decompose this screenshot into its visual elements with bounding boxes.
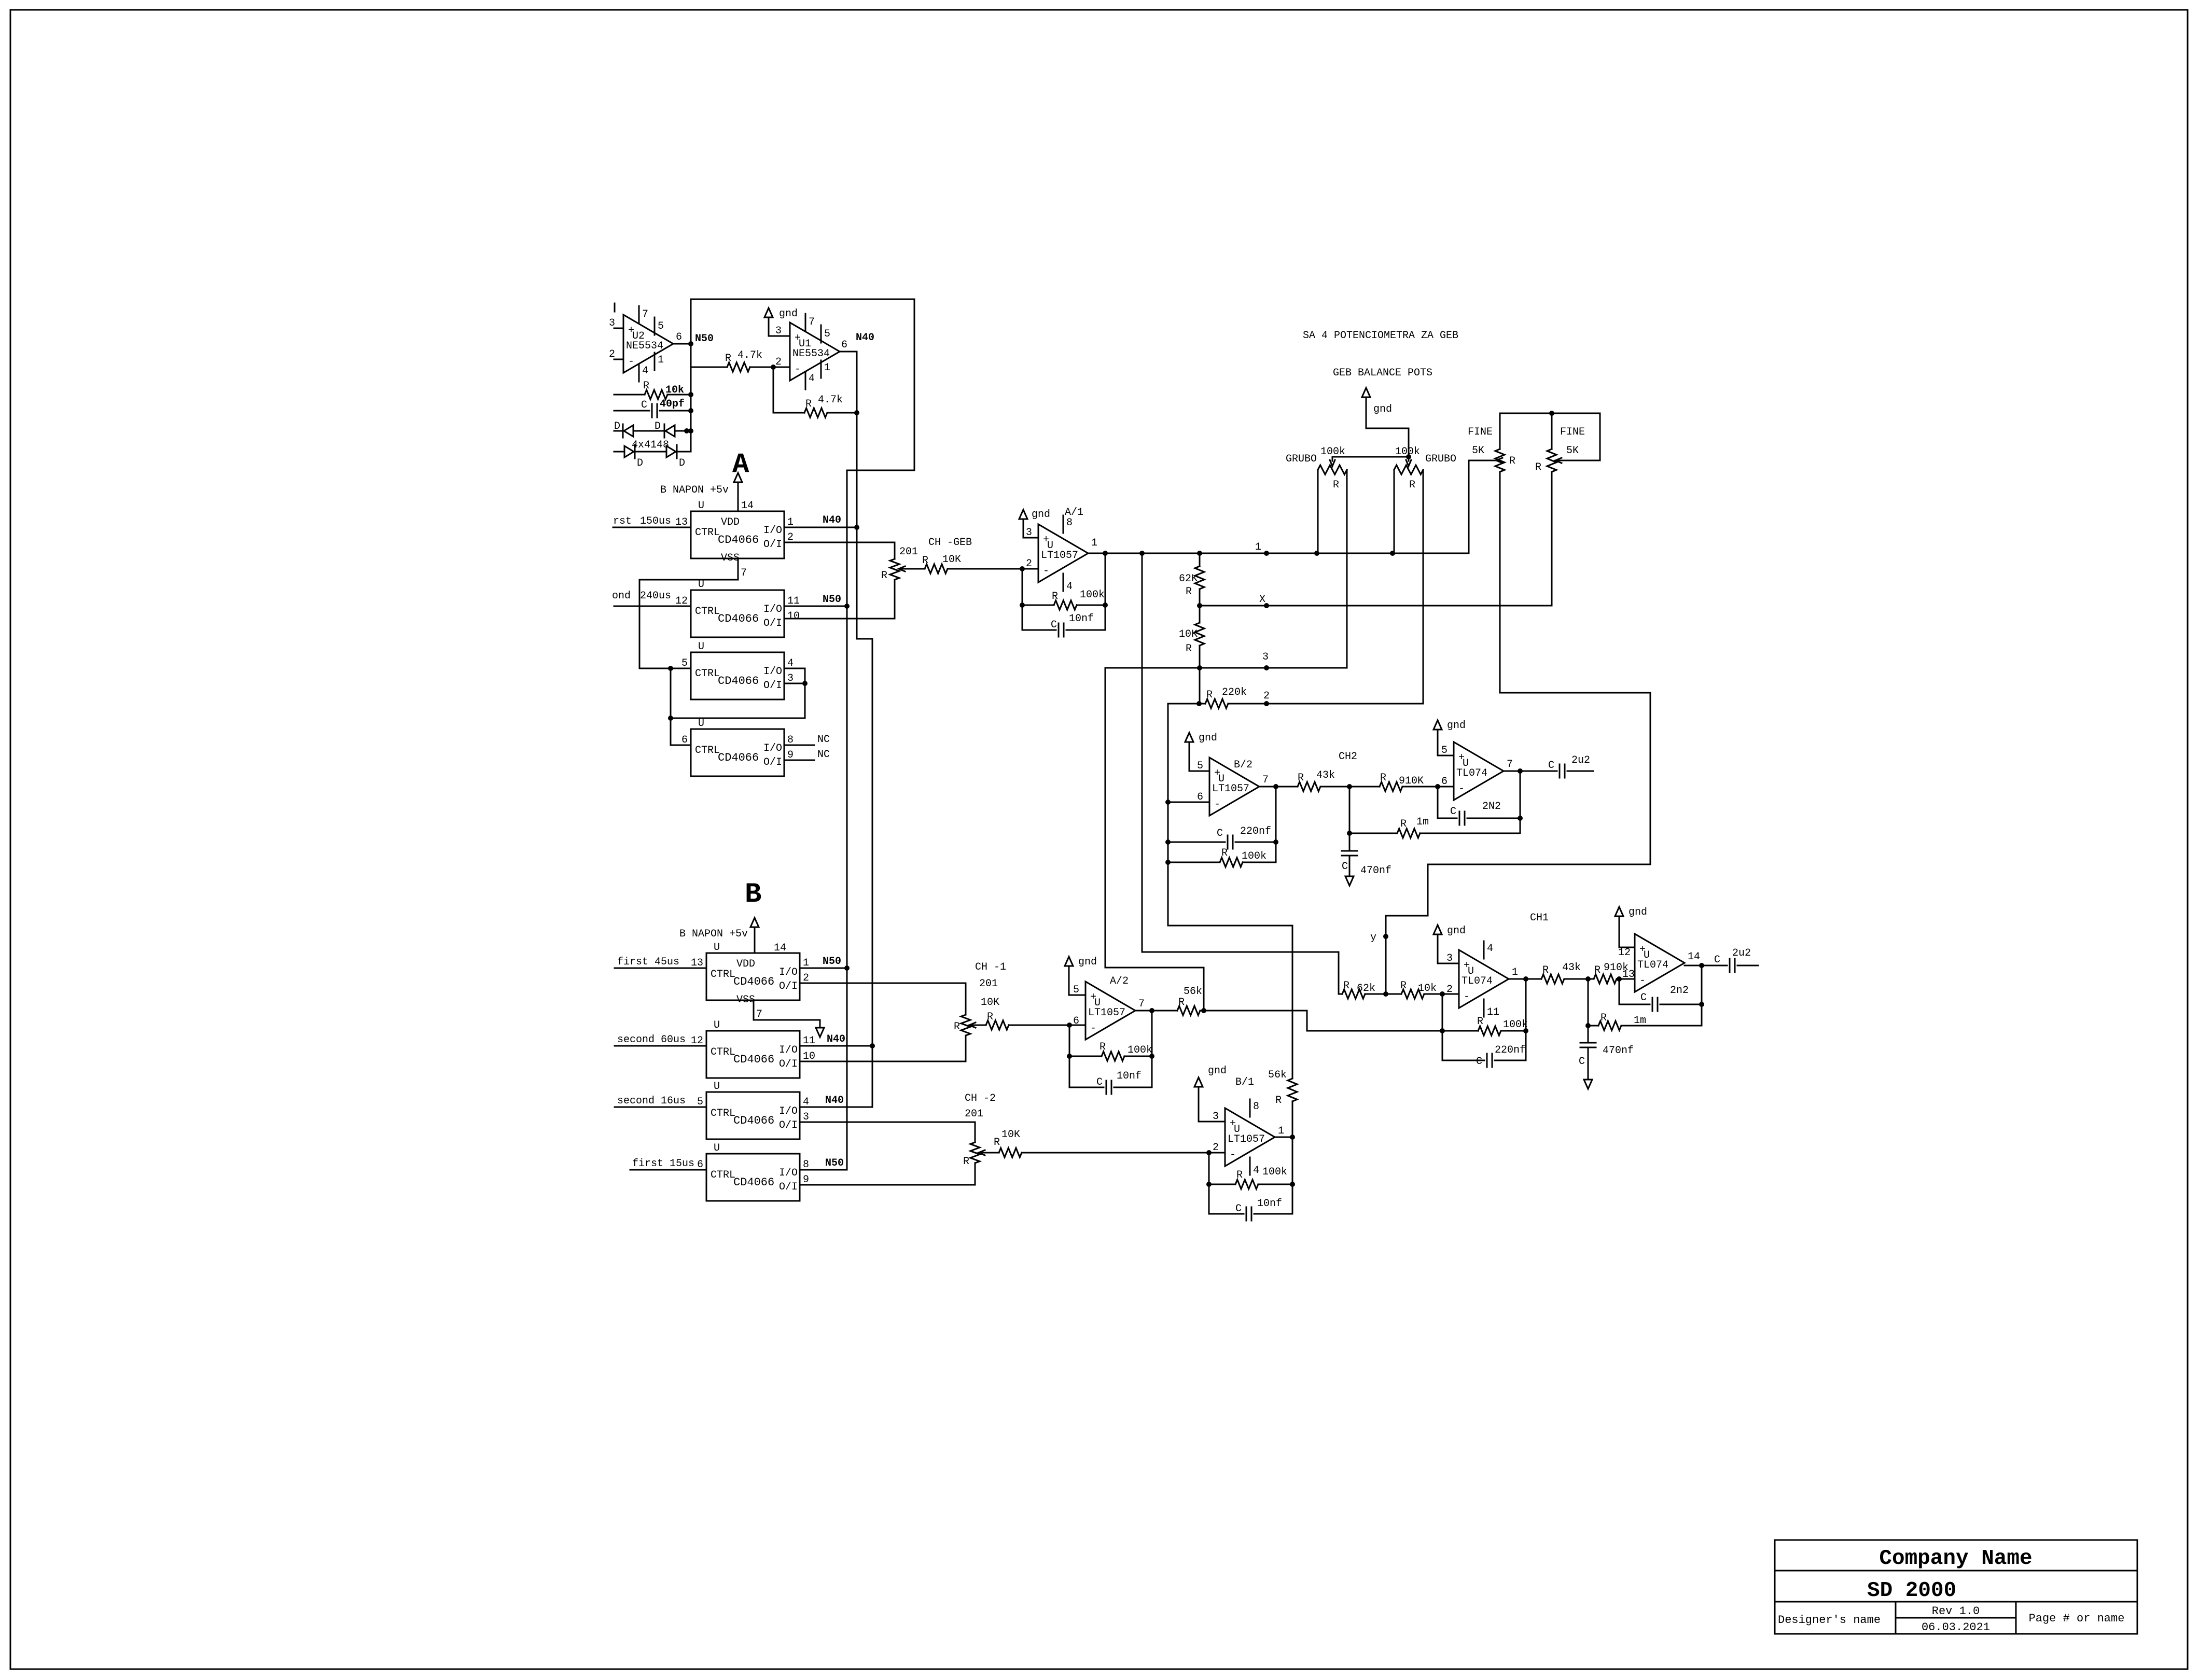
svg-text:C: C [641, 399, 647, 411]
resistor R 910K CH2 [1349, 772, 1454, 791]
svg-text:-: - [1458, 783, 1465, 795]
svg-text:gnd: gnd [1078, 956, 1097, 968]
svg-text:FINE: FINE [1560, 426, 1585, 438]
potentiometer 201 CH-GEB [881, 537, 972, 619]
wire B/2 output [1259, 784, 1298, 789]
svg-text:FINE: FINE [1468, 426, 1493, 438]
svg-text:R: R [994, 1137, 1000, 1149]
resistor R 100k feedback A/1 [1020, 551, 1108, 610]
svg-text:220k: 220k [1222, 687, 1247, 698]
svg-text:TL074: TL074 [1456, 767, 1487, 779]
label A section [732, 449, 749, 481]
svg-text:C: C [1051, 619, 1057, 631]
svg-text:1: 1 [1278, 1125, 1284, 1137]
svg-text:CTRL: CTRL [695, 668, 720, 680]
svg-text:LT1057: LT1057 [1041, 550, 1078, 562]
node N40 label [856, 332, 874, 344]
capacitor C 2n2 feedback CH1 [1619, 979, 1704, 1011]
svg-text:CD4066: CD4066 [718, 751, 759, 764]
svg-text:2N2: 2N2 [1482, 801, 1501, 813]
svg-text:7: 7 [741, 567, 747, 579]
svg-text:10: 10 [787, 610, 800, 622]
svg-text:201: 201 [965, 1108, 983, 1120]
wire A4 pin9 NC [784, 749, 830, 761]
svg-text:I/O: I/O [763, 666, 782, 678]
capacitor C 10nf feedback A/1 [1022, 605, 1105, 637]
node 3 label [1262, 651, 1269, 663]
wire 10K to B/1 pin2 [1206, 1150, 1225, 1155]
svg-text:R: R [1477, 1016, 1483, 1028]
svg-text:I/O: I/O [779, 967, 798, 978]
wire A1 VDD pin14 [737, 490, 739, 511]
wire B3 pin3 to pot CH-2 [800, 1122, 975, 1142]
svg-text:D: D [637, 457, 643, 469]
svg-text:4.7k: 4.7k [818, 394, 843, 406]
svg-text:R: R [1298, 772, 1304, 784]
svg-text:5: 5 [824, 328, 830, 340]
svg-text:10K: 10K [981, 997, 999, 1009]
wire A/1 output row node 1 [1088, 551, 1469, 556]
svg-text:O/I: O/I [763, 618, 782, 629]
svg-text:D: D [679, 457, 685, 469]
wire CH2 output [1504, 768, 1557, 833]
CD4066 switch block A3 [681, 641, 794, 699]
label CH2 [1339, 751, 1357, 763]
svg-text:13: 13 [1622, 969, 1635, 981]
svg-text:B: B [745, 879, 761, 911]
svg-text:R: R [805, 398, 812, 410]
svg-text:5K: 5K [1566, 445, 1579, 457]
svg-text:gnd: gnd [1629, 906, 1647, 918]
svg-text:R: R [1594, 964, 1600, 976]
wire U2 output to node N50 [673, 341, 693, 346]
svg-text:O/I: O/I [779, 1181, 798, 1193]
capacitor C 470nf CH1 [1579, 1026, 1634, 1080]
svg-text:NC: NC [817, 734, 830, 746]
svg-text:D: D [614, 421, 620, 432]
svg-text:TL074: TL074 [1637, 959, 1668, 971]
svg-text:CTRL: CTRL [695, 745, 720, 757]
svg-text:R: R [1221, 847, 1228, 859]
svg-text:GRUBO: GRUBO [1286, 453, 1317, 465]
node 1 label [1255, 541, 1261, 553]
svg-text:C: C [1235, 1203, 1242, 1215]
svg-text:220nf: 220nf [1495, 1044, 1526, 1056]
svg-text:CTRL: CTRL [711, 1169, 735, 1181]
svg-text:N40: N40 [823, 514, 841, 526]
svg-text:-: - [1090, 1023, 1096, 1034]
svg-text:2n2: 2n2 [1670, 985, 1689, 997]
svg-text:R: R [1052, 591, 1058, 603]
resistor R 62k CH1 [1339, 980, 1388, 999]
svg-text:R: R [954, 1021, 960, 1033]
wire B1 pin2 to pot CH-1 [800, 983, 966, 1015]
svg-text:C: C [1640, 992, 1647, 1004]
capacitor C 220nf feedback CH1-A [1442, 1031, 1526, 1068]
svg-text:10K: 10K [942, 554, 961, 566]
svg-text:7: 7 [1138, 998, 1145, 1010]
svg-text:R: R [1400, 980, 1407, 992]
svg-text:B NAPON +5v: B NAPON +5v [679, 928, 748, 940]
svg-text:2u2: 2u2 [1732, 947, 1751, 959]
svg-text:C: C [1579, 1056, 1585, 1068]
svg-text:VDD: VDD [721, 516, 740, 528]
svg-text:R: R [1400, 818, 1407, 830]
svg-text:LT1057: LT1057 [1212, 783, 1249, 795]
svg-text:56k: 56k [1268, 1069, 1287, 1081]
resistor R 220k [1168, 687, 1423, 708]
svg-text:LT1057: LT1057 [1228, 1133, 1265, 1145]
wire B4 pin9 to pot CH-2 bottom [800, 1163, 975, 1185]
svg-text:NC: NC [817, 749, 830, 761]
svg-text:CH -GEB: CH -GEB [928, 537, 972, 549]
svg-text:U: U [714, 1081, 720, 1093]
op-amp CH1-B TL074 [1618, 934, 1700, 992]
svg-text:14: 14 [741, 500, 754, 512]
svg-text:201: 201 [979, 978, 998, 990]
svg-text:56k: 56k [1184, 986, 1202, 998]
svg-text:gnd: gnd [1447, 720, 1466, 732]
svg-text:100k: 100k [1262, 1166, 1287, 1178]
wire A1 pin2 to pot 201 [784, 542, 895, 559]
wire ctrl first 45us [615, 956, 706, 968]
svg-text:1: 1 [824, 362, 830, 374]
svg-text:CTRL: CTRL [711, 969, 735, 981]
svg-text:1: 1 [1512, 967, 1518, 978]
wire A/2 out to CH1 summing node [1307, 1011, 1442, 1031]
svg-text:220nf: 220nf [1240, 825, 1271, 837]
svg-text:62k: 62k [1357, 983, 1375, 995]
svg-text:B NAPON +5v: B NAPON +5v [660, 484, 729, 496]
svg-text:R: R [1333, 479, 1339, 491]
wire A3 pin5 from ctrl chain [639, 666, 691, 671]
power arrow +5v section B [679, 918, 759, 953]
svg-text:470nf: 470nf [1360, 865, 1391, 877]
wire A1 VSS pin7 chain [639, 558, 738, 668]
wire ctrl second 60us [615, 1034, 706, 1046]
svg-text:1m: 1m [1634, 1015, 1646, 1027]
wire top loop to N40 right [691, 299, 914, 470]
wire A/2 output [1135, 1010, 1177, 1012]
potentiometer FINE 5K left [1468, 413, 1515, 693]
node X label [1259, 594, 1265, 606]
svg-text:100k: 100k [1242, 850, 1266, 862]
svg-text:O/I: O/I [779, 981, 798, 992]
svg-text:LT1057: LT1057 [1088, 1007, 1125, 1019]
svg-text:R: R [1535, 461, 1541, 473]
svg-text:I/O: I/O [779, 1044, 798, 1056]
svg-text:4x4148: 4x4148 [632, 439, 669, 451]
wire CH1-A pin2 [1442, 993, 1459, 995]
CD4066 switch block B3 [697, 1081, 809, 1139]
svg-text:4.7k: 4.7k [737, 349, 762, 361]
wire route pot3 to node y [1386, 693, 1650, 994]
svg-text:4: 4 [1066, 581, 1073, 593]
svg-text:R: R [922, 555, 928, 567]
svg-text:R: R [1275, 1095, 1282, 1107]
resistor R 56k A/2 output [1177, 986, 1307, 1015]
svg-text:R: R [643, 380, 649, 392]
svg-text:O/I: O/I [779, 1119, 798, 1131]
svg-text:6: 6 [841, 339, 847, 351]
svg-text:6: 6 [1441, 776, 1448, 788]
ground gnd above B/2 [1185, 732, 1217, 771]
svg-text:7: 7 [809, 316, 815, 328]
svg-text:8: 8 [1066, 517, 1073, 529]
svg-text:Rev 1.0: Rev 1.0 [1932, 1605, 1980, 1618]
svg-text:CH2: CH2 [1339, 751, 1357, 763]
svg-text:62K: 62K [1179, 573, 1198, 585]
resistor R 10k [614, 380, 693, 399]
ground gnd above CH1-B [1615, 906, 1647, 947]
svg-text:D: D [655, 421, 661, 432]
wire B2 pin11 to N40 [800, 1033, 875, 1048]
svg-text:U: U [714, 1019, 720, 1031]
svg-text:first 15us: first 15us [632, 1158, 694, 1170]
CD4066 switch block A2 [675, 579, 800, 637]
svg-text:100k: 100k [1320, 446, 1345, 458]
CD4066 switch block B1 [691, 942, 809, 1020]
svg-text:CD4066: CD4066 [733, 1114, 774, 1127]
svg-text:Company Name: Company Name [1879, 1547, 2032, 1571]
capacitor C 40pf [614, 398, 693, 417]
wire CH1-A output [1509, 978, 1541, 980]
svg-text:CH1: CH1 [1530, 912, 1549, 924]
power arrow +5v section A [660, 473, 742, 511]
svg-text:10k: 10k [1418, 983, 1437, 995]
wire A4 pin8 NC [784, 734, 830, 746]
svg-text:VSS: VSS [736, 994, 755, 1006]
svg-text:10K: 10K [1179, 628, 1198, 640]
capacitor C 2N2 feedback CH2 [1438, 787, 1523, 825]
svg-text:GRUBO: GRUBO [1425, 453, 1456, 465]
resistor R 1m feedback CH2 [1347, 787, 1520, 838]
svg-text:U: U [698, 718, 704, 730]
svg-text:I/O: I/O [763, 743, 782, 754]
op-amp A/1 LT1057 [1026, 507, 1097, 593]
svg-text:CTRL: CTRL [711, 1046, 735, 1058]
ground gnd above U1 pin3 [764, 308, 798, 336]
potentiometer GRUBO 100k right [1394, 446, 1456, 704]
svg-text:CD4066: CD4066 [733, 1053, 774, 1066]
op-amp CH1-A TL074 [1446, 941, 1518, 1018]
wire B3 pin4 to N40 [800, 1095, 872, 1107]
svg-text:I/O: I/O [763, 525, 782, 537]
svg-text:O/I: O/I [763, 539, 782, 551]
wire 10K to 220k junction [1196, 668, 1202, 706]
svg-text:1: 1 [1091, 537, 1097, 549]
ground gnd above pots [1362, 388, 1409, 457]
svg-text:CH -2: CH -2 [965, 1093, 996, 1104]
svg-text:CTRL: CTRL [695, 527, 720, 539]
CD4066 switch block A1 [675, 500, 794, 579]
svg-text:R: R [1099, 1041, 1106, 1053]
CD4066 switch block A4 [681, 718, 794, 776]
svg-text:R: R [1186, 643, 1192, 655]
potentiometer GRUBO 100k left [1286, 446, 1411, 668]
resistor R 1m feedback CH1 [1585, 979, 1702, 1030]
svg-text:gnd: gnd [1373, 403, 1392, 415]
svg-text:R: R [1206, 689, 1213, 701]
svg-text:100k: 100k [1395, 446, 1420, 458]
svg-text:VDD: VDD [736, 958, 755, 970]
svg-text:2: 2 [1263, 690, 1270, 702]
diodes D upper pair of 4x4148 [614, 421, 693, 438]
svg-text:7: 7 [1507, 759, 1513, 771]
svg-text:-: - [1043, 565, 1049, 577]
op-amp U1 NE5534 [775, 314, 847, 389]
svg-text:CD4066: CD4066 [718, 675, 759, 688]
svg-text:CD4066: CD4066 [718, 534, 759, 547]
svg-text:4: 4 [1253, 1165, 1259, 1177]
svg-text:U: U [698, 579, 704, 591]
CD4066 switch block B4 [697, 1142, 809, 1201]
svg-text:10nf: 10nf [1117, 1070, 1142, 1082]
svg-text:O/I: O/I [763, 757, 782, 768]
svg-text:A: A [732, 449, 749, 481]
svg-text:N40: N40 [827, 1033, 845, 1045]
svg-text:R: R [1600, 1012, 1607, 1024]
op-amp A/2 LT1057 [1073, 975, 1145, 1040]
wire vertical bus left of U1 [690, 299, 692, 452]
svg-text:10nf: 10nf [1069, 613, 1094, 625]
svg-text:A/1: A/1 [1065, 507, 1083, 519]
svg-text:gnd: gnd [1199, 732, 1217, 744]
svg-text:CD4066: CD4066 [733, 1176, 774, 1189]
svg-text:U: U [698, 641, 704, 653]
svg-text:240us: 240us [640, 590, 671, 602]
svg-text:-: - [1214, 799, 1220, 810]
svg-text:8: 8 [1253, 1101, 1259, 1113]
svg-text:R: R [881, 570, 887, 582]
svg-text:43k: 43k [1562, 962, 1581, 974]
capacitor C 470nf CH2 [1342, 833, 1391, 877]
svg-text:SD 2000: SD 2000 [1867, 1579, 1956, 1603]
wire CH1-B output [1685, 963, 1727, 1004]
svg-text:N50: N50 [825, 1157, 844, 1169]
label CH1 [1530, 912, 1549, 924]
svg-text:R: R [1343, 980, 1349, 992]
resistor R 10k CH1 [1386, 980, 1445, 999]
svg-text:SA 4 POTENCIOMETRA ZA GEB: SA 4 POTENCIOMETRA ZA GEB [1303, 330, 1458, 342]
resistor R 100k feedback A/2 [1067, 1008, 1154, 1061]
op-amp U2 NE5534 [609, 306, 682, 382]
svg-text:second 16us: second 16us [617, 1095, 686, 1107]
svg-text:06.03.2021: 06.03.2021 [1922, 1621, 1990, 1634]
svg-text:N50: N50 [823, 594, 841, 606]
ground gnd above A/1 [1019, 509, 1050, 538]
svg-text:Page # or name: Page # or name [2029, 1612, 2125, 1625]
svg-text:gnd: gnd [1032, 509, 1050, 521]
svg-text:6: 6 [676, 331, 682, 343]
svg-text:R: R [725, 353, 731, 365]
wire U2 pin3 stub [614, 303, 623, 328]
svg-text:R: R [963, 1156, 969, 1168]
svg-text:1m: 1m [1416, 816, 1429, 828]
label B section [745, 879, 761, 911]
capacitor C 2u2 CH2 output [1548, 754, 1593, 778]
label GEB BALANCE POTS [1333, 367, 1432, 379]
svg-text:gnd: gnd [1447, 925, 1466, 937]
svg-text:N50: N50 [823, 956, 841, 968]
capacitor C 220nf feedback B/2 [1165, 787, 1278, 849]
svg-text:100k: 100k [1503, 1019, 1528, 1031]
wire B/1 output [1275, 1135, 1295, 1184]
resistor R 100k feedback CH1-A [1440, 976, 1528, 1035]
ground gnd above CH2 TL074 [1433, 720, 1466, 755]
svg-text:C: C [1450, 806, 1456, 818]
op-amp CH2 TL074 [1441, 742, 1513, 800]
svg-text:1: 1 [1255, 541, 1261, 553]
ground arrow below 470nf CH1 [1584, 1080, 1592, 1089]
svg-text:14: 14 [1688, 951, 1700, 963]
label SA 4 POTENCIOMETRA ZA GEB [1303, 330, 1458, 342]
wire node1 route to CH1 62k [1142, 553, 1339, 994]
wire B1 pin1 to N50 [800, 956, 850, 971]
svg-text:2u2: 2u2 [1571, 754, 1590, 766]
svg-text:40pf: 40pf [660, 398, 685, 410]
wire node 3 row [1105, 665, 1347, 670]
potentiometer 201 CH-2 [963, 1093, 999, 1168]
wire node2 to B/2 pin6 [1165, 704, 1209, 805]
svg-text:C: C [1217, 828, 1223, 839]
svg-text:rst: rst [613, 515, 632, 527]
diodes D lower pair of 4x4148 [614, 439, 691, 469]
svg-text:-: - [1464, 991, 1470, 1003]
capacitor C 10nf feedback B/1 [1209, 1184, 1292, 1221]
svg-text:R: R [1542, 964, 1549, 976]
svg-text:910K: 910K [1399, 775, 1424, 787]
svg-text:470nf: 470nf [1603, 1045, 1634, 1057]
svg-text:R: R [1186, 586, 1192, 598]
svg-text:100k: 100k [1128, 1044, 1152, 1056]
wire A3 pin4 loop [671, 668, 808, 718]
ground gnd above CH1-A [1433, 925, 1466, 963]
svg-text:Designer's name: Designer's name [1778, 1614, 1881, 1627]
wire N50 vertical bus [846, 470, 848, 1170]
wire U2 pin2 stub [614, 359, 623, 360]
svg-text:GEB BALANCE POTS: GEB BALANCE POTS [1333, 367, 1432, 379]
svg-text:R: R [1509, 455, 1515, 467]
wire B1 VSS pin7 chain [754, 1000, 820, 1028]
resistor R 10K CH-1 [981, 997, 1069, 1030]
op-amp B/2 LT1057 [1197, 758, 1269, 816]
node y label [1370, 932, 1388, 944]
svg-text:y: y [1370, 932, 1376, 944]
svg-text:CD4066: CD4066 [733, 975, 774, 988]
wire ctrl first 150us [613, 515, 691, 527]
svg-text:201: 201 [899, 546, 918, 558]
svg-text:7: 7 [642, 309, 648, 320]
resistor R 4.7k input [691, 349, 790, 372]
resistor R 100k feedback B/1 [1206, 1153, 1295, 1189]
svg-text:gnd: gnd [1208, 1065, 1227, 1077]
node N50 label [695, 333, 714, 345]
op-amp B/1 LT1057 [1213, 1076, 1284, 1177]
svg-text:VSS: VSS [721, 552, 740, 564]
wire A2 pin10 to pot bottom [784, 618, 895, 620]
wire ctrl second 16us [615, 1095, 706, 1107]
svg-text:N50: N50 [695, 333, 714, 345]
svg-text:7: 7 [756, 1009, 762, 1020]
svg-text:4: 4 [642, 365, 648, 377]
svg-text:10K: 10K [1001, 1129, 1020, 1141]
svg-text:100k: 100k [1080, 589, 1105, 601]
svg-text:O/I: O/I [763, 680, 782, 692]
potentiometer 201 CH-1 [954, 961, 1006, 1035]
ground arrow below 470nf CH2 [1345, 876, 1354, 886]
svg-text:CH -1: CH -1 [975, 961, 1006, 973]
